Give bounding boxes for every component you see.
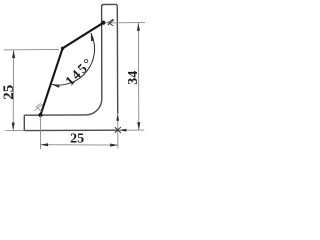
arrow pointing left at base bottom right corner xyxy=(119,129,127,132)
extension line top left (vertex level) xyxy=(4,48,59,51)
bracket base bottom edge xyxy=(24,129,118,131)
dimension line bottom 25 xyxy=(40,144,118,146)
extension line bottom of 34 xyxy=(118,129,144,131)
arrow bottom dim left xyxy=(40,143,48,146)
svg-text:34: 34 xyxy=(126,71,141,85)
arrow left dim down xyxy=(12,123,15,131)
svg-text:25: 25 xyxy=(70,132,84,147)
rod upper segment xyxy=(63,23,104,49)
cross marker bottom right corner xyxy=(115,127,121,133)
marker open arrow with slash at top attachment xyxy=(108,19,114,26)
arrow arc lower end xyxy=(52,85,60,88)
dimension line left 25 xyxy=(12,50,14,130)
arrow pointing up at column bottom corner xyxy=(116,114,119,121)
extension line bottom right vertical xyxy=(117,114,119,149)
bracket column right edge xyxy=(116,6,118,113)
arrow 34 down xyxy=(137,122,140,130)
bracket base left edge xyxy=(23,115,25,130)
bracket column top edge xyxy=(104,4,118,6)
marker open arrow with slash on rod near lower pin xyxy=(35,104,43,112)
angle arc 145 xyxy=(52,33,95,85)
extension line bottom left xyxy=(6,130,25,132)
bracket inner fillet xyxy=(86,99,102,115)
extension line top right (attachment level) xyxy=(105,22,145,24)
rod lower segment xyxy=(41,48,63,115)
arrow 34 up xyxy=(137,23,140,31)
svg-text:145°: 145° xyxy=(62,54,96,88)
rod vertex dot xyxy=(61,47,64,50)
arrow arc upper end xyxy=(91,33,94,41)
extension line from lower pin down xyxy=(39,116,41,150)
dimension line right 34 xyxy=(137,23,139,130)
rod lower pin dot xyxy=(38,113,42,117)
rod upper pin dot xyxy=(101,21,105,25)
svg-text:25: 25 xyxy=(1,85,17,100)
arrow left dim up xyxy=(12,50,15,58)
bracket column left edge xyxy=(102,5,104,99)
bracket base top edge xyxy=(24,114,85,116)
arrow bottom dim right xyxy=(110,144,118,147)
